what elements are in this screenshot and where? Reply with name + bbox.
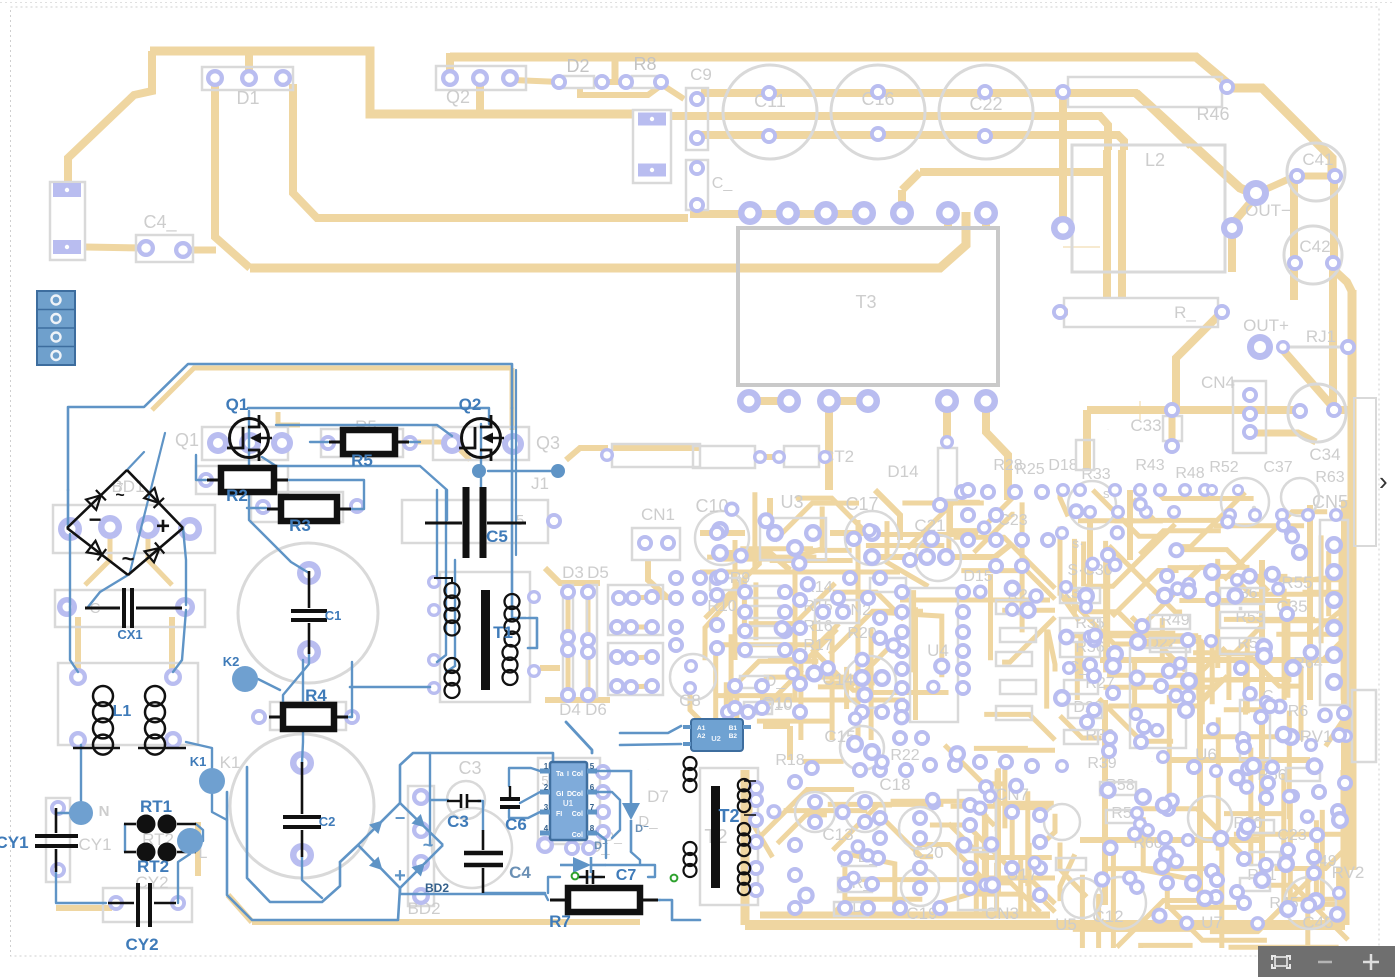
svg-text:Ta: Ta <box>556 771 564 778</box>
svg-text:7: 7 <box>590 803 595 812</box>
svg-text:C_: C_ <box>712 175 734 192</box>
svg-text:R_: R_ <box>1251 719 1253 721</box>
svg-text:R17: R17 <box>803 637 832 654</box>
svg-text:K1: K1 <box>220 753 241 772</box>
svg-text:+: + <box>156 513 170 540</box>
node K1 <box>190 754 225 794</box>
transformer T2 <box>684 757 757 895</box>
svg-text:R55: R55 <box>1281 573 1312 592</box>
svg-text:U7: U7 <box>1201 913 1223 932</box>
svg-text:R43: R43 <box>1135 457 1164 474</box>
resistor R4 <box>269 686 348 729</box>
svg-text:R28: R28 <box>993 457 1022 474</box>
svg-text:CY1: CY1 <box>0 833 29 852</box>
bridge rectifier BD1 <box>67 470 183 575</box>
svg-text:−: − <box>395 808 406 828</box>
svg-text:C6: C6 <box>505 815 527 834</box>
svg-text:R5: R5 <box>351 451 373 470</box>
svg-text:Col: Col <box>572 832 583 839</box>
resistor R3 <box>267 497 351 535</box>
svg-text:R_: R_ <box>1174 303 1196 322</box>
capacitor C7 <box>575 867 636 884</box>
capacitor C2 <box>283 762 335 857</box>
svg-text:L2: L2 <box>1145 150 1165 170</box>
svg-text:C3: C3 <box>447 812 469 831</box>
svg-text:C9: C9 <box>690 65 712 84</box>
svg-text:D7: D7 <box>647 787 669 806</box>
transistor Q2 <box>459 395 504 461</box>
svg-text:2: 2 <box>544 783 549 792</box>
svg-text:C33: C33 <box>1130 416 1161 435</box>
svg-text:R3: R3 <box>289 516 311 535</box>
green pin 2 <box>671 875 678 882</box>
svg-text:A2: A2 <box>697 733 706 740</box>
svg-text:C41: C41 <box>1302 150 1333 169</box>
capacitor C5 <box>425 487 526 558</box>
svg-text:−: − <box>89 507 102 532</box>
svg-text:D4: D4 <box>559 700 581 719</box>
junction J1b <box>551 464 565 478</box>
svg-text:8: 8 <box>590 824 595 833</box>
resistor R2 <box>207 468 288 505</box>
svg-text:CX1: CX1 <box>117 627 142 642</box>
junction J1a <box>472 464 486 478</box>
svg-text:4: 4 <box>544 824 549 833</box>
node N <box>69 801 93 825</box>
capacitor CX1 <box>85 588 182 642</box>
svg-text:R6: R6 <box>1288 703 1309 720</box>
transformer T1 <box>434 578 520 698</box>
svg-text:1: 1 <box>544 762 549 771</box>
svg-text:D⁻: D⁻ <box>635 823 649 835</box>
svg-text:C33: C33 <box>1107 429 1109 431</box>
svg-text:T1: T1 <box>493 623 513 642</box>
svg-text:U3: U3 <box>780 492 803 512</box>
svg-text:C17: C17 <box>845 494 878 514</box>
svg-text:CY1: CY1 <box>78 835 111 854</box>
svg-text:R22: R22 <box>890 747 919 764</box>
svg-text:5: 5 <box>590 762 595 771</box>
svg-text:B2: B2 <box>729 733 738 740</box>
svg-text:B1: B1 <box>729 725 738 732</box>
svg-text:U2: U2 <box>711 734 721 743</box>
svg-text:R4: R4 <box>305 686 327 705</box>
svg-text:Q2: Q2 <box>446 87 470 107</box>
svg-text:RV2: RV2 <box>1332 863 1365 882</box>
green pin 1 <box>572 873 579 880</box>
capacitor C4 <box>464 830 531 893</box>
svg-text:J1: J1 <box>531 474 549 493</box>
svg-text:~: ~ <box>115 487 124 504</box>
svg-text:L1: L1 <box>113 703 132 720</box>
svg-text:RJ1: RJ1 <box>1306 327 1336 346</box>
capacitor C3 <box>447 794 481 831</box>
svg-text:Col: Col <box>572 791 583 798</box>
svg-text:C42: C42 <box>1299 237 1330 256</box>
svg-text:K2: K2 <box>223 654 240 669</box>
node K2 <box>223 654 258 692</box>
panel chevron <box>1379 466 1395 496</box>
schematic wires <box>56 364 700 920</box>
svg-text:D2: D2 <box>566 56 589 76</box>
svg-text:Q1: Q1 <box>175 430 199 450</box>
schematic symbols <box>0 0 1 1</box>
svg-text:C2: C2 <box>319 814 336 829</box>
relay U2 <box>683 719 751 751</box>
svg-text:Q1: Q1 <box>226 395 249 414</box>
svg-text:D3: D3 <box>562 563 584 582</box>
svg-text:+: + <box>394 865 406 887</box>
svg-text:CN4: CN4 <box>1201 373 1235 392</box>
svg-text:R52: R52 <box>1209 459 1238 476</box>
svg-text:RT2: RT2 <box>137 857 169 876</box>
svg-text:D15: D15 <box>963 568 992 585</box>
diode D7 <box>622 770 649 852</box>
svg-text:C7: C7 <box>616 867 637 884</box>
svg-text:C10: C10 <box>695 496 728 516</box>
svg-text:BD2: BD2 <box>425 881 449 895</box>
svg-text:~: ~ <box>122 546 135 571</box>
svg-text:C20: C20 <box>912 843 943 862</box>
resistor R7 <box>549 888 658 931</box>
svg-text:C3: C3 <box>458 758 481 778</box>
node L <box>177 828 203 854</box>
resistor R5 <box>329 430 409 470</box>
svg-text:C5: C5 <box>486 527 508 546</box>
svg-text:T2: T2 <box>718 806 739 826</box>
svg-text:D⁻: D⁻ <box>594 840 608 852</box>
bridge rectifier BD2 <box>358 803 449 895</box>
svg-text:R18: R18 <box>775 752 804 769</box>
svg-text:U4: U4 <box>927 641 949 660</box>
capacitor CY2 <box>108 883 176 954</box>
svg-text:D5: D5 <box>587 563 609 582</box>
svg-text:Col: Col <box>572 771 583 778</box>
svg-text:C37: C37 <box>1263 459 1292 476</box>
svg-text:FI: FI <box>556 811 562 818</box>
svg-text:R48: R48 <box>1175 465 1204 482</box>
transistor Q1 <box>226 395 272 461</box>
svg-text:C4: C4 <box>509 863 531 882</box>
svg-text:R46: R46 <box>1196 104 1229 124</box>
svg-text:Q2: Q2 <box>459 395 482 414</box>
svg-text:1: 1 <box>648 769 649 771</box>
svg-text:CY2: CY2 <box>125 935 158 954</box>
svg-text:C4_: C4_ <box>143 212 177 233</box>
svg-text:GI: GI <box>556 791 563 798</box>
op-amp U1 <box>540 762 597 840</box>
svg-text:C34: C34 <box>1309 445 1340 464</box>
svg-text:U5: U5 <box>1055 915 1077 934</box>
zoom toolbar <box>1258 946 1395 977</box>
capacitor C6 <box>500 786 527 834</box>
svg-text:K1: K1 <box>190 754 207 769</box>
svg-text:R7: R7 <box>549 912 571 931</box>
svg-text:CN3: CN3 <box>985 904 1019 923</box>
svg-text:U1: U1 <box>563 799 574 808</box>
svg-text:T3: T3 <box>855 292 876 312</box>
connector header CN (4-pin) <box>37 291 75 365</box>
svg-text:N: N <box>99 803 110 820</box>
svg-text:Col: Col <box>572 811 583 818</box>
svg-text:OUT+: OUT+ <box>1243 316 1289 335</box>
svg-text:C1: C1 <box>325 608 342 623</box>
svg-text:CN1: CN1 <box>641 505 675 524</box>
capacitor C1 <box>291 571 341 654</box>
svg-text:R63: R63 <box>1315 469 1344 486</box>
svg-text:s·: s· <box>1072 535 1084 551</box>
svg-text:D18: D18 <box>1048 457 1077 474</box>
svg-text:D14: D14 <box>887 462 918 481</box>
inductor L1 <box>73 686 186 755</box>
svg-text:A1: A1 <box>697 725 706 732</box>
capacitor CY1 <box>0 808 78 872</box>
svg-text:R8: R8 <box>633 54 656 74</box>
thermistors RT1 RT2 <box>124 797 196 876</box>
svg-text:U6: U6 <box>1151 761 1153 763</box>
svg-text:6: 6 <box>590 783 595 792</box>
svg-text:I: I <box>567 771 569 778</box>
svg-text:C23: C23 <box>1277 827 1306 844</box>
svg-text:Q3: Q3 <box>536 433 560 453</box>
diode D8 <box>560 840 608 873</box>
svg-text:D1: D1 <box>236 88 259 108</box>
svg-text:3: 3 <box>544 803 549 812</box>
svg-text:~: ~ <box>423 835 434 855</box>
svg-text:R2: R2 <box>226 486 248 505</box>
svg-text:RT1: RT1 <box>140 797 172 816</box>
